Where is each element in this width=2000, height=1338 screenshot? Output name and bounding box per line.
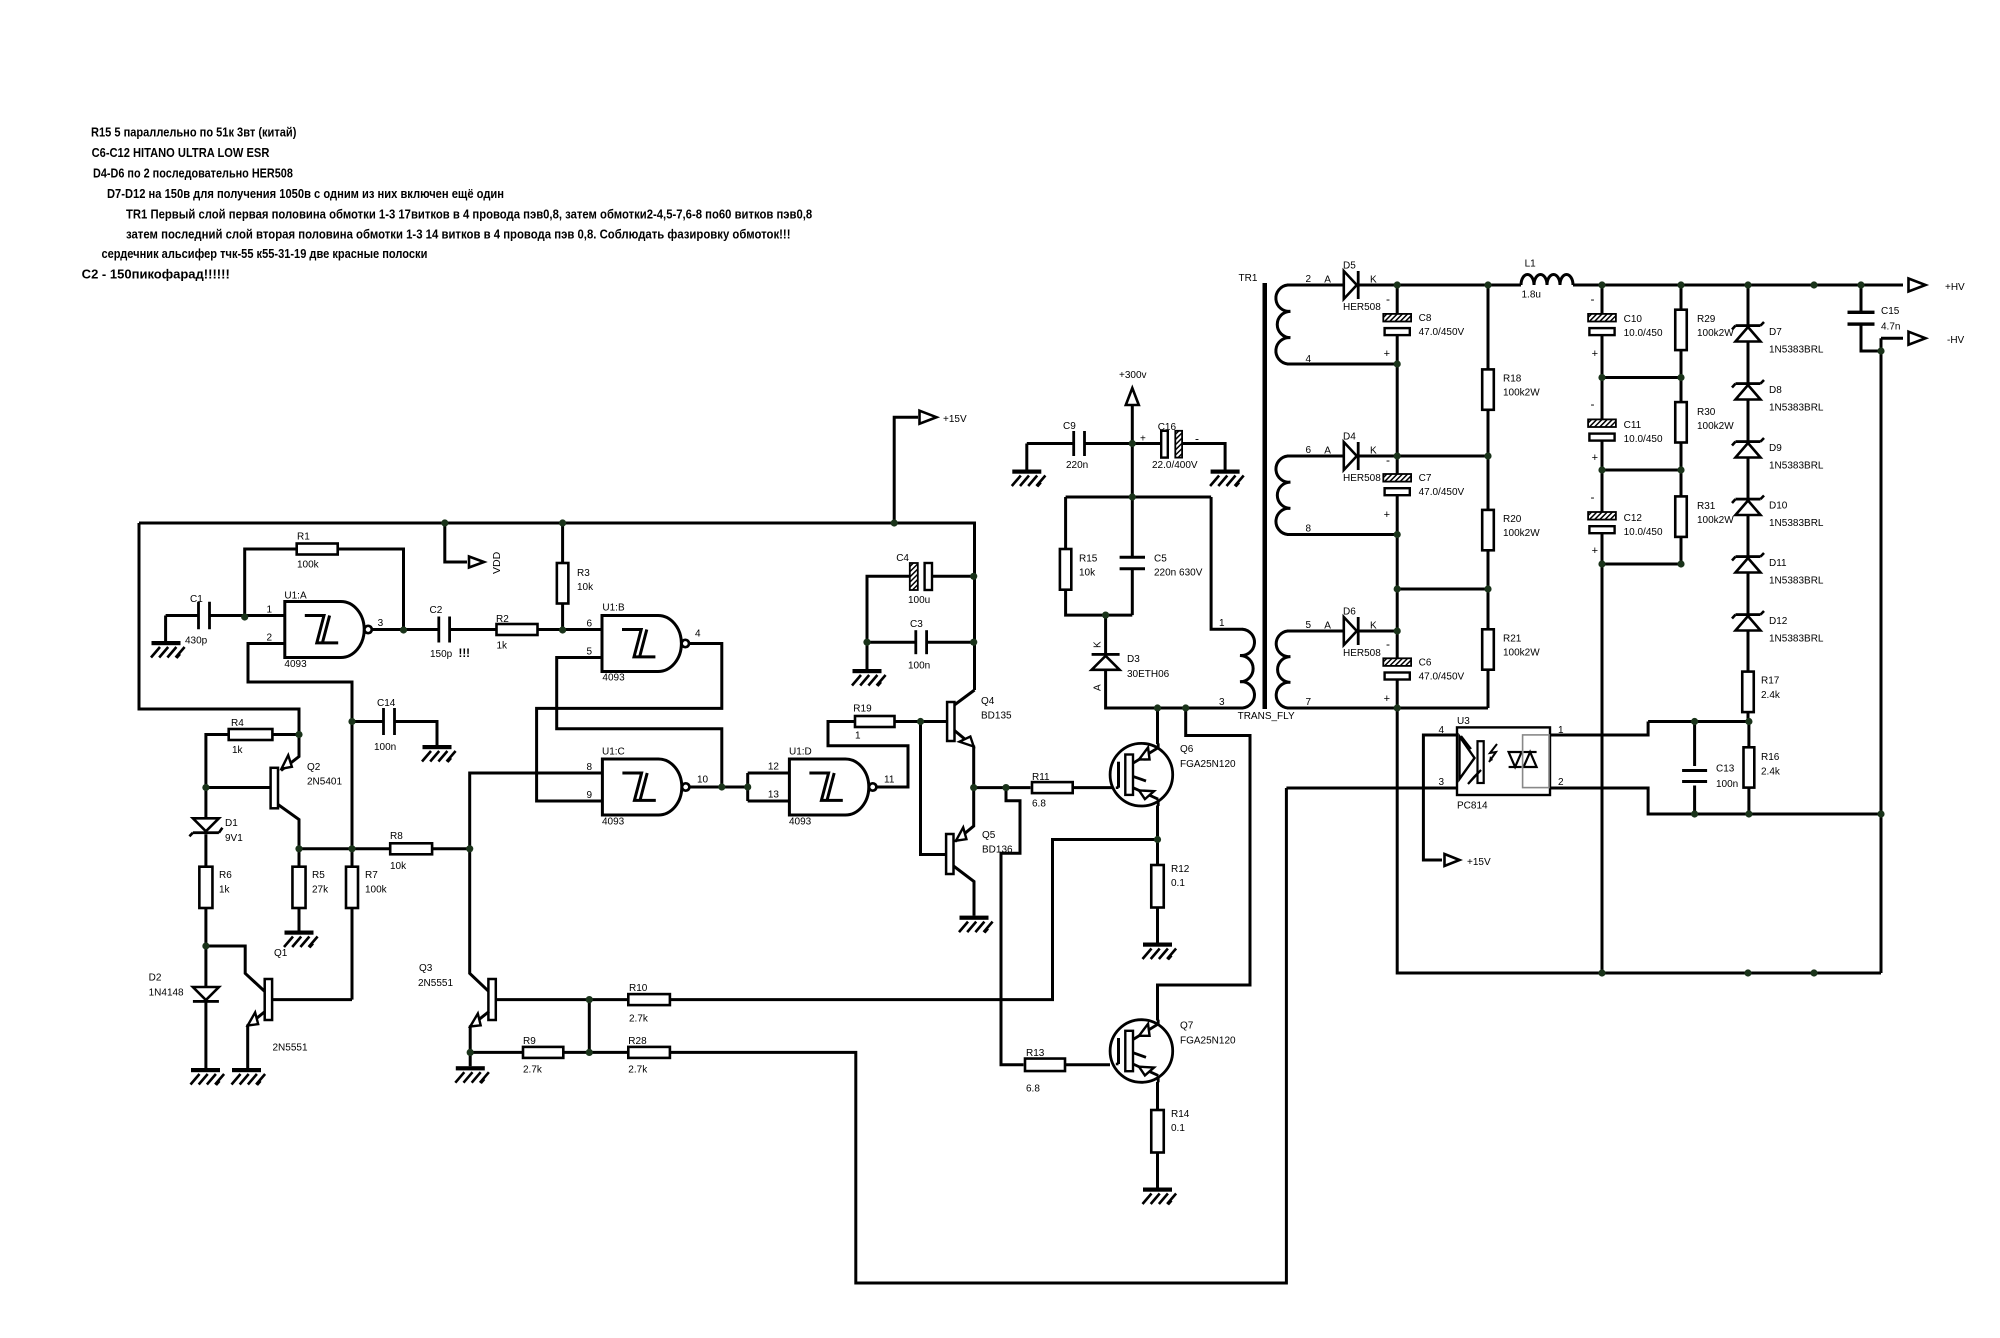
svg-text:PC814: PC814 (1457, 801, 1488, 812)
svg-text:TRANS_FLY: TRANS_FLY (1238, 711, 1295, 722)
svg-text:1k: 1k (497, 641, 509, 652)
svg-text:2: 2 (1558, 777, 1564, 788)
svg-text:1k: 1k (232, 745, 244, 756)
svg-text:R15 5 параллельно по 51к 3вт (: R15 5 параллельно по 51к 3вт (китай) (91, 125, 296, 140)
svg-text:2N5401: 2N5401 (307, 777, 342, 788)
svg-text:2.4k: 2.4k (1761, 690, 1781, 701)
svg-text:4093: 4093 (789, 817, 812, 828)
svg-text:3: 3 (1438, 777, 1444, 788)
svg-text:R29: R29 (1697, 314, 1716, 325)
svg-text:5: 5 (586, 647, 592, 658)
svg-text:47.0/450V: 47.0/450V (1419, 672, 1465, 683)
svg-text:47.0/450V: 47.0/450V (1419, 327, 1465, 338)
svg-text:10.0/450: 10.0/450 (1624, 328, 1663, 339)
svg-text:100k2W: 100k2W (1503, 648, 1540, 659)
svg-text:затем последний слой вторая по: затем последний слой вторая половина обм… (126, 227, 791, 242)
svg-text:U1:D: U1:D (789, 747, 812, 758)
svg-text:Q4: Q4 (981, 696, 995, 707)
svg-text:47.0/450V: 47.0/450V (1419, 487, 1465, 498)
svg-text:100k: 100k (297, 560, 320, 571)
svg-text:12: 12 (768, 762, 780, 773)
svg-text:A: A (1324, 621, 1331, 632)
svg-text:100k2W: 100k2W (1503, 528, 1540, 539)
svg-text:K: K (1370, 621, 1377, 632)
svg-text:1: 1 (1219, 618, 1225, 629)
svg-text:R6: R6 (219, 870, 232, 881)
svg-text:27k: 27k (312, 885, 329, 896)
svg-text:+: + (1140, 434, 1146, 445)
svg-text:TR1 Первый слой первая половин: TR1 Первый слой первая половина обмотки … (126, 207, 812, 222)
svg-text:D11: D11 (1769, 558, 1787, 569)
svg-text:3: 3 (378, 618, 384, 629)
svg-text:6: 6 (1305, 445, 1311, 456)
svg-text:220n: 220n (1066, 460, 1088, 471)
svg-text:R1: R1 (297, 532, 310, 543)
svg-text:R30: R30 (1697, 407, 1716, 418)
svg-text:HER508: HER508 (1343, 302, 1381, 313)
svg-text:430p: 430p (185, 636, 208, 647)
svg-text:+: + (1592, 452, 1598, 464)
svg-text:4: 4 (695, 629, 701, 640)
svg-text:1N5383BRL: 1N5383BRL (1769, 461, 1824, 472)
svg-text:C10: C10 (1624, 314, 1643, 325)
svg-text:C13: C13 (1716, 764, 1735, 775)
svg-text:R13: R13 (1026, 1048, 1045, 1059)
svg-text:100n: 100n (908, 661, 930, 672)
svg-text:11: 11 (884, 774, 895, 785)
svg-text:30ETH06: 30ETH06 (1127, 669, 1170, 680)
svg-text:C2 - 150пикофарад!!!!!!: C2 - 150пикофарад!!!!!! (82, 267, 230, 282)
svg-text:+: + (1384, 509, 1390, 521)
svg-text:4093: 4093 (284, 659, 307, 670)
svg-text:13: 13 (768, 790, 780, 801)
svg-text:6.8: 6.8 (1032, 799, 1046, 810)
svg-text:-: - (1591, 397, 1595, 411)
svg-text:2: 2 (266, 633, 272, 644)
svg-text:C7: C7 (1419, 473, 1432, 484)
svg-text:C9: C9 (1063, 421, 1076, 432)
svg-text:R15: R15 (1079, 554, 1098, 565)
svg-text:FGA25N120: FGA25N120 (1180, 759, 1236, 770)
svg-text:2: 2 (1305, 274, 1311, 285)
svg-text:R3: R3 (577, 568, 590, 579)
svg-text:-: - (1591, 490, 1595, 504)
svg-text:U1:C: U1:C (602, 747, 625, 758)
svg-text:C3: C3 (910, 619, 923, 630)
svg-text:D7-D12 на 150в для получения 1: D7-D12 на 150в для получения 1050в с одн… (107, 186, 504, 201)
svg-text:1: 1 (266, 605, 272, 616)
svg-text:6.8: 6.8 (1026, 1084, 1040, 1095)
svg-text:10k: 10k (577, 582, 594, 593)
svg-text:D2: D2 (149, 973, 162, 984)
svg-text:1N5383BRL: 1N5383BRL (1769, 345, 1824, 356)
svg-text:R5: R5 (312, 870, 325, 881)
svg-text:C14: C14 (377, 698, 396, 709)
svg-text:100n: 100n (1716, 779, 1738, 790)
svg-text:2.7k: 2.7k (629, 1014, 649, 1025)
svg-text:R14: R14 (1171, 1109, 1190, 1120)
svg-text:D4-D6 по 2 последовательно HER: D4-D6 по 2 последовательно HER508 (93, 166, 293, 181)
svg-text:R9: R9 (523, 1036, 536, 1047)
svg-text:+: + (1592, 348, 1598, 360)
svg-text:R4: R4 (231, 718, 244, 729)
svg-text:U3: U3 (1457, 716, 1470, 727)
svg-text:R11: R11 (1032, 772, 1050, 783)
svg-text:-: - (1195, 432, 1199, 446)
svg-text:0.1: 0.1 (1171, 878, 1185, 889)
svg-text:Q1: Q1 (274, 948, 288, 959)
svg-text:R8: R8 (390, 831, 403, 842)
svg-text:10.0/450: 10.0/450 (1624, 527, 1663, 538)
svg-text:3: 3 (1219, 697, 1225, 708)
svg-text:1N4148: 1N4148 (149, 988, 184, 999)
svg-text:+300v: +300v (1119, 370, 1147, 381)
svg-text:L1: L1 (1525, 259, 1537, 270)
svg-text:9V1: 9V1 (225, 833, 243, 844)
svg-text:A: A (1324, 446, 1331, 457)
svg-text:C12: C12 (1624, 513, 1643, 524)
svg-text:C6-C12 HITANO ULTRA LOW ESR: C6-C12 HITANO ULTRA LOW ESR (92, 145, 270, 160)
svg-text:R20: R20 (1503, 514, 1522, 525)
svg-text:+HV: +HV (1945, 282, 1965, 293)
svg-text:D4: D4 (1343, 432, 1356, 443)
svg-text:U1:B: U1:B (602, 603, 625, 614)
svg-text:2N5551: 2N5551 (418, 978, 453, 989)
svg-text:D12: D12 (1769, 616, 1788, 627)
svg-text:1N5383BRL: 1N5383BRL (1769, 576, 1824, 587)
svg-text:10: 10 (697, 774, 709, 785)
svg-text:1.8u: 1.8u (1522, 290, 1541, 301)
svg-text:8: 8 (1305, 524, 1311, 535)
svg-text:+: + (1384, 348, 1390, 360)
svg-text:+: + (1384, 693, 1390, 705)
svg-text:D1: D1 (225, 818, 238, 829)
svg-text:6: 6 (586, 619, 592, 630)
svg-text:1N5383BRL: 1N5383BRL (1769, 403, 1824, 414)
svg-text:-: - (1591, 292, 1595, 306)
svg-text:-: - (1386, 637, 1390, 651)
svg-text:TR1: TR1 (1239, 273, 1258, 284)
svg-text:C5: C5 (1154, 554, 1167, 565)
svg-text:D10: D10 (1769, 501, 1788, 512)
svg-text:2.7k: 2.7k (523, 1065, 543, 1076)
svg-text:Q7: Q7 (1180, 1021, 1194, 1032)
svg-text:HER508: HER508 (1343, 473, 1381, 484)
svg-text:10k: 10k (390, 861, 407, 872)
svg-text:10k: 10k (1079, 568, 1096, 579)
svg-text:0.1: 0.1 (1171, 1123, 1185, 1134)
svg-text:100k: 100k (365, 885, 388, 896)
svg-text:C8: C8 (1419, 313, 1432, 324)
svg-text:2N5551: 2N5551 (273, 1043, 308, 1054)
svg-text:100u: 100u (908, 595, 930, 606)
svg-text:R28: R28 (628, 1036, 647, 1047)
svg-text:K: K (1370, 446, 1377, 457)
svg-text:1: 1 (1558, 725, 1564, 736)
svg-text:D8: D8 (1769, 385, 1782, 396)
svg-text:5: 5 (1305, 620, 1311, 631)
svg-text:U1:A: U1:A (284, 590, 307, 601)
svg-text:-: - (1386, 453, 1390, 467)
svg-text:2.4k: 2.4k (1761, 767, 1781, 778)
svg-text:1k: 1k (219, 885, 231, 896)
svg-text:-: - (1386, 292, 1390, 306)
svg-text:A: A (1324, 275, 1331, 286)
svg-text:R2: R2 (496, 614, 509, 625)
svg-text:100k2W: 100k2W (1697, 515, 1734, 526)
svg-text:100n: 100n (374, 742, 396, 753)
svg-text:D5: D5 (1343, 261, 1356, 272)
svg-text:9: 9 (586, 790, 592, 801)
svg-text:4.7n: 4.7n (1881, 322, 1900, 333)
svg-text:R18: R18 (1503, 374, 1522, 385)
svg-text:100k2W: 100k2W (1503, 388, 1540, 399)
svg-text:D6: D6 (1343, 607, 1356, 618)
svg-text:R10: R10 (629, 983, 648, 994)
svg-text:A: A (1093, 684, 1104, 691)
svg-text:+15V: +15V (943, 414, 967, 425)
svg-text:Q3: Q3 (419, 963, 433, 974)
svg-text:C2: C2 (430, 605, 443, 616)
svg-text:Q5: Q5 (982, 830, 996, 841)
svg-text:1N5383BRL: 1N5383BRL (1769, 518, 1824, 529)
svg-text:HER508: HER508 (1343, 648, 1381, 659)
svg-text:R31: R31 (1697, 501, 1716, 512)
svg-text:R17: R17 (1761, 676, 1780, 687)
svg-text:R21: R21 (1503, 634, 1522, 645)
svg-text:C11: C11 (1624, 420, 1642, 431)
svg-text:-HV: -HV (1947, 335, 1965, 346)
svg-text:1: 1 (855, 731, 861, 742)
svg-text:C6: C6 (1419, 658, 1432, 669)
svg-text:220n 630V: 220n 630V (1154, 568, 1203, 579)
svg-text:D7: D7 (1769, 327, 1782, 338)
svg-text:!!!: !!! (459, 648, 471, 660)
svg-text:8: 8 (586, 762, 592, 773)
svg-text:100k2W: 100k2W (1697, 328, 1734, 339)
svg-text:K: K (1093, 641, 1104, 648)
svg-text:R16: R16 (1761, 752, 1780, 763)
svg-text:R7: R7 (365, 870, 378, 881)
svg-text:7: 7 (1305, 697, 1311, 708)
svg-text:D9: D9 (1769, 443, 1782, 454)
svg-text:C16: C16 (1158, 422, 1177, 433)
svg-text:BD135: BD135 (981, 711, 1012, 722)
svg-text:4093: 4093 (602, 673, 625, 684)
svg-text:2.7k: 2.7k (628, 1065, 648, 1076)
svg-text:+15V: +15V (1467, 857, 1491, 868)
svg-text:FGA25N120: FGA25N120 (1180, 1036, 1236, 1047)
svg-text:K: K (1370, 275, 1377, 286)
svg-text:150p: 150p (430, 649, 453, 660)
svg-text:C15: C15 (1881, 306, 1900, 317)
svg-text:Q2: Q2 (307, 762, 321, 773)
svg-text:C4: C4 (896, 553, 909, 564)
svg-text:R19: R19 (853, 704, 872, 715)
svg-text:сердечник альсифер тчк-55 к55-: сердечник альсифер тчк-55 к55-31-19 две … (102, 246, 428, 261)
svg-text:22.0/400V: 22.0/400V (1152, 460, 1198, 471)
svg-text:Q6: Q6 (1180, 744, 1194, 755)
svg-text:4093: 4093 (602, 817, 625, 828)
svg-text:C1: C1 (190, 594, 203, 605)
svg-text:R12: R12 (1171, 864, 1190, 875)
svg-text:1N5383BRL: 1N5383BRL (1769, 634, 1824, 645)
svg-text:D3: D3 (1127, 654, 1140, 665)
svg-text:+: + (1592, 545, 1598, 557)
svg-text:100k2W: 100k2W (1697, 421, 1734, 432)
svg-text:10.0/450: 10.0/450 (1624, 434, 1663, 445)
svg-text:VDD: VDD (491, 551, 503, 574)
